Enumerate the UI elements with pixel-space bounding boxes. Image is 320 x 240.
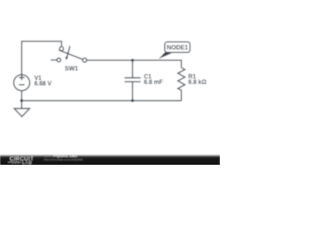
svg-text:SW1: SW1 (65, 66, 79, 73)
wire bottom rail (22, 100, 182, 102)
svg-text:6.8 kΩ: 6.8 kΩ (188, 80, 206, 86)
ground (14, 101, 29, 117)
svg-text:http://circuitlab.com/c4dfy6h6: http://circuitlab.com/c4dfy6h6 (44, 158, 83, 162)
svg-text:6.8 mF: 6.8 mF (144, 80, 163, 86)
switch arrow head (65, 57, 68, 61)
wire top rail to switch (21, 41, 61, 47)
switch SW1 (51, 46, 87, 62)
wire switch to R1 top (87, 60, 182, 67)
voltage source V1 (14, 75, 30, 91)
svg-text:NODE1: NODE1 (167, 45, 189, 52)
junction node at C1 bottom (131, 99, 134, 102)
junction node at C1 top (131, 59, 134, 62)
wire left rail V1 top to top-left corner (21, 41, 23, 75)
resistor R1 (178, 68, 185, 101)
capacitor C1 (125, 60, 141, 100)
watermark CircuitLab logo (8, 157, 34, 165)
junction node at V1 bottom (20, 99, 23, 102)
svg-text:LAB: LAB (22, 160, 32, 165)
svg-text:6.68 V: 6.68 V (34, 82, 51, 88)
wire V1 bottom to junction (21, 91, 23, 101)
node NODE1 callout (159, 42, 190, 59)
